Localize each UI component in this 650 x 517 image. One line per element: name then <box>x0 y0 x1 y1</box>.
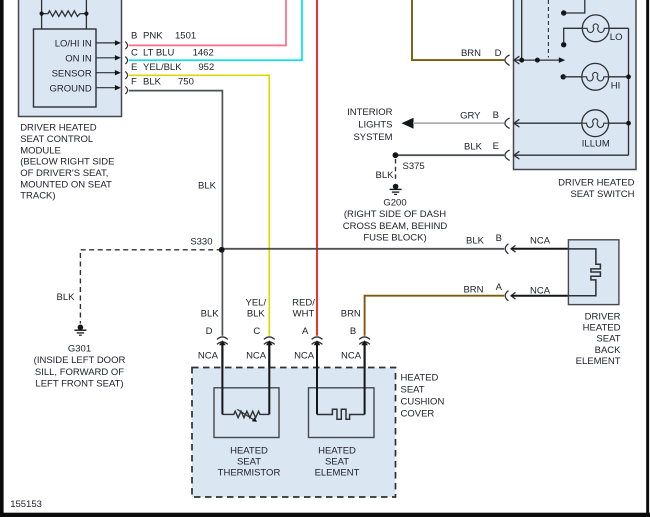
resistor (module internal) <box>42 11 87 17</box>
svg-text:NCA: NCA <box>198 350 219 361</box>
connector B (switch GRY) <box>505 118 510 129</box>
svg-text:INTERIOR: INTERIOR <box>347 107 393 118</box>
wire <box>41 0 43 29</box>
heated seat element box <box>309 388 375 438</box>
splice S375 <box>393 152 399 158</box>
svg-text:NCA: NCA <box>246 350 267 361</box>
connector D (switch) <box>505 55 510 66</box>
svg-text:PNK: PNK <box>143 31 163 42</box>
label RED//WHT wire A <box>292 298 315 320</box>
switch caption <box>558 178 635 201</box>
back element heating symbol <box>568 249 600 296</box>
label BLK B (to back element) <box>466 233 502 246</box>
ground G301 <box>78 325 84 331</box>
svg-text:B: B <box>493 110 499 121</box>
svg-text:MOUNTED ON SEAT: MOUNTED ON SEAT <box>20 179 112 190</box>
switch actuator (dashed) <box>547 0 549 58</box>
wire <box>268 345 270 415</box>
label C LT BLU 1462 <box>131 47 214 58</box>
junction dot <box>84 12 88 16</box>
svg-text:OF DRIVER'S SEAT,: OF DRIVER'S SEAT, <box>20 168 108 179</box>
module inner box <box>34 29 97 107</box>
svg-text:SEAT CONTROL: SEAT CONTROL <box>20 134 93 145</box>
svg-text:NCA: NCA <box>341 350 362 361</box>
right bus wire <box>628 28 630 155</box>
connector B (cushion harness) <box>359 337 370 340</box>
interior lights system caption <box>347 107 393 143</box>
svg-text:HI: HI <box>611 81 621 92</box>
splice S330 <box>219 247 225 253</box>
connector D (cushion harness) <box>217 337 228 340</box>
svg-text:BRN: BRN <box>341 308 361 319</box>
svg-text:SILL, FORWARD OF: SILL, FORWARD OF <box>35 367 124 378</box>
switch upper contact feed <box>564 0 585 13</box>
ground G200 <box>393 184 399 190</box>
svg-text:SYSTEM: SYSTEM <box>353 132 392 143</box>
svg-text:YEL/: YEL/ <box>245 298 266 309</box>
svg-text:HEATED: HEATED <box>401 372 439 383</box>
driver heated seat control module outer box <box>19 0 122 117</box>
svg-text:1501: 1501 <box>175 31 196 42</box>
svg-text:HEATED: HEATED <box>318 446 356 457</box>
wire GRY <box>413 122 504 124</box>
label E YEL/BLK 952 <box>131 62 214 73</box>
svg-text:C: C <box>253 326 260 337</box>
wire (dashed) S375 to G200 <box>395 159 397 180</box>
svg-text:BRN: BRN <box>463 284 483 295</box>
heating element symbol <box>317 409 365 419</box>
svg-text:MODULE: MODULE <box>20 145 61 156</box>
connector A (back element) <box>505 291 508 301</box>
wire <box>85 0 87 29</box>
wire HI to right bus <box>609 76 629 78</box>
svg-text:DRIVER HEATED: DRIVER HEATED <box>558 178 635 189</box>
wire NCA <box>316 345 318 415</box>
lamp HI contact + left wire <box>561 74 566 79</box>
svg-text:BLK: BLK <box>464 141 483 152</box>
svg-text:D: D <box>495 48 502 59</box>
svg-text:SENSOR: SENSOR <box>52 68 92 79</box>
svg-text:SEAT SWITCH: SEAT SWITCH <box>570 189 634 200</box>
svg-text:GRY: GRY <box>460 110 481 121</box>
svg-text:(BELOW RIGHT SIDE: (BELOW RIGHT SIDE <box>20 157 114 168</box>
cushion cover caption <box>401 372 445 419</box>
svg-text:F: F <box>131 77 137 88</box>
module location caption <box>20 123 114 202</box>
wire <box>221 345 223 415</box>
lamp ILLUM left wire (from GRY B) <box>514 122 582 124</box>
svg-text:A: A <box>302 326 309 337</box>
svg-text:DRIVER: DRIVER <box>585 311 621 322</box>
wire E internal (bottom) <box>514 154 629 156</box>
G301 caption <box>34 343 126 389</box>
wire YEL/BLK 952 <box>129 75 269 336</box>
connector E (switch) <box>505 150 510 161</box>
label BLK E <box>464 141 499 152</box>
svg-text:G301: G301 <box>68 343 91 354</box>
svg-text:D: D <box>206 326 213 337</box>
connector C (cushion harness) <box>264 337 275 340</box>
thermistor caption <box>218 446 281 479</box>
svg-text:SEAT: SEAT <box>596 334 620 345</box>
wire NCA <box>364 345 366 415</box>
wire NCA to back element <box>511 295 568 297</box>
svg-text:BACK: BACK <box>595 345 622 356</box>
svg-text:G200: G200 <box>383 198 406 209</box>
svg-text:B: B <box>350 326 356 337</box>
svg-text:HEATED: HEATED <box>583 323 621 334</box>
svg-text:BLK: BLK <box>201 308 220 319</box>
svg-text:B: B <box>131 31 137 42</box>
svg-text:B: B <box>496 233 502 244</box>
svg-text:BLK: BLK <box>57 292 76 303</box>
svg-text:GROUND: GROUND <box>49 83 91 94</box>
svg-text:NCA: NCA <box>530 285 551 296</box>
wire BLK (S375 to switch E) <box>395 154 504 156</box>
svg-text:SEAT: SEAT <box>237 457 261 468</box>
wire NCA to back element <box>511 248 568 250</box>
svg-text:BLK: BLK <box>247 308 266 319</box>
connector B (back element) <box>505 244 508 254</box>
svg-text:1462: 1462 <box>193 47 214 58</box>
svg-text:SEAT: SEAT <box>401 384 425 395</box>
svg-text:HEATED: HEATED <box>230 446 268 457</box>
junction dot <box>40 12 44 16</box>
wire (dashed) S330 to G301 <box>80 250 221 324</box>
svg-text:DRIVER HEATED: DRIVER HEATED <box>20 123 97 134</box>
svg-text:LIGHTS: LIGHTS <box>358 120 392 131</box>
wire <box>364 345 366 415</box>
heated seat cushion cover (dashed box) <box>192 368 396 498</box>
label GRY B <box>460 110 499 121</box>
wire BRN (seat back element A to element B) <box>365 296 505 336</box>
svg-text:750: 750 <box>178 77 194 88</box>
wire <box>316 345 318 415</box>
driver heated seat back element box <box>568 240 619 305</box>
label B PNK 1501 <box>131 31 196 42</box>
driver heated seat switch box <box>514 0 637 170</box>
G200 caption <box>343 198 448 244</box>
heated seat thermistor box <box>214 388 279 438</box>
svg-text:LO: LO <box>610 32 623 43</box>
wire ILLUM to right bus <box>609 122 629 124</box>
wire (switch internal feed up) <box>521 0 523 60</box>
wire NCA <box>268 345 270 415</box>
svg-text:THERMISTOR: THERMISTOR <box>218 467 281 478</box>
svg-text:BRN: BRN <box>461 48 481 59</box>
back element caption <box>576 311 622 367</box>
lamp HI <box>582 63 609 90</box>
svg-text:S330: S330 <box>190 236 212 247</box>
lamp ILLUM <box>582 110 609 137</box>
wire LT BLU 1462 <box>129 0 302 60</box>
lamp LO left wire + contact <box>564 28 583 42</box>
svg-text:(RIGHT SIDE OF DASH: (RIGHT SIDE OF DASH <box>344 209 446 220</box>
wire RED/WHT <box>316 0 318 336</box>
wire NCA <box>221 345 223 415</box>
junction dot <box>535 58 540 63</box>
svg-text:ILLUM: ILLUM <box>582 139 610 150</box>
svg-text:S375: S375 <box>403 161 425 172</box>
svg-text:A: A <box>496 282 503 293</box>
svg-text:RED/: RED/ <box>292 298 315 309</box>
svg-text:ELEMENT: ELEMENT <box>576 356 621 367</box>
svg-text:E: E <box>493 141 499 152</box>
wire BRN (feed to switch D) <box>412 0 504 60</box>
svg-text:BLK: BLK <box>143 77 162 88</box>
contact dot <box>561 10 566 15</box>
svg-text:C: C <box>131 47 138 58</box>
label BRN A (to back element) <box>463 282 502 295</box>
svg-text:BLK: BLK <box>376 170 395 181</box>
svg-text:952: 952 <box>198 62 214 73</box>
label F BLK 750 <box>131 77 194 88</box>
svg-text:WHT: WHT <box>293 308 315 319</box>
svg-text:BLK: BLK <box>466 235 485 246</box>
junction dot <box>519 58 524 63</box>
wire BLK to seat back element (B) <box>222 248 505 250</box>
svg-text:YEL/BLK: YEL/BLK <box>143 62 182 73</box>
svg-text:FUSE BLOCK): FUSE BLOCK) <box>363 232 426 243</box>
svg-text:NCA: NCA <box>530 235 551 246</box>
thermistor (zigzag + arrow) <box>222 411 269 418</box>
wire PNK 1501 <box>129 0 286 45</box>
svg-text:(INSIDE LEFT DOOR: (INSIDE LEFT DOOR <box>34 355 126 366</box>
svg-text:ELEMENT: ELEMENT <box>315 467 360 478</box>
svg-text:LEFT FRONT SEAT): LEFT FRONT SEAT) <box>35 379 123 390</box>
wire LO to right bus <box>609 27 628 29</box>
lamp LO <box>582 15 609 42</box>
connector A (cushion harness) <box>312 337 323 340</box>
svg-text:LO/HI IN: LO/HI IN <box>55 39 92 50</box>
svg-text:ON IN: ON IN <box>65 53 92 64</box>
svg-text:COVER: COVER <box>401 409 435 420</box>
svg-text:E: E <box>131 62 137 73</box>
svg-text:CUSHION: CUSHION <box>401 397 445 408</box>
svg-text:NCA: NCA <box>294 350 315 361</box>
switch wiper wire (pin D) <box>514 59 560 61</box>
svg-text:155153: 155153 <box>10 499 42 510</box>
label BRN D <box>461 48 502 59</box>
svg-text:BLK: BLK <box>198 181 217 192</box>
svg-text:LT BLU: LT BLU <box>143 47 174 58</box>
element caption <box>315 446 360 479</box>
label YEL//BLK wire C <box>245 298 266 320</box>
svg-text:CROSS BEAM, BEHIND: CROSS BEAM, BEHIND <box>343 221 448 232</box>
svg-text:SEAT: SEAT <box>325 457 349 468</box>
wire BLK 750 <box>129 91 223 336</box>
arrow to interior lights system <box>402 118 414 129</box>
svg-text:TRACK): TRACK) <box>20 191 55 202</box>
